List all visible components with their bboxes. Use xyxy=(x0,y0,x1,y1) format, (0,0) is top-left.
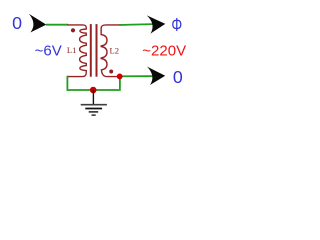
polarity dot (secondary) xyxy=(109,70,113,74)
svg-text:~220V: ~220V xyxy=(142,43,186,60)
svg-text:Φ: Φ xyxy=(171,15,182,35)
arrow (bottom-right output) xyxy=(147,67,165,85)
transformer core line (left) xyxy=(90,24,92,77)
junction (secondary bottom node) xyxy=(117,74,123,80)
wire (bottom rail) xyxy=(67,89,121,91)
ground xyxy=(81,90,107,115)
wire (left riser to primary bottom) xyxy=(66,76,68,90)
svg-text:0: 0 xyxy=(173,67,183,87)
svg-text:L1: L1 xyxy=(67,45,76,55)
svg-text:L2: L2 xyxy=(110,45,119,55)
transformer primary winding L1 xyxy=(67,25,86,77)
arrow (top-right output) xyxy=(147,15,166,34)
wire (top-left, arrow to primary pin) xyxy=(46,24,68,26)
arrow (top-left input) xyxy=(27,14,47,34)
polarity dot (primary) xyxy=(71,28,75,32)
wire (secondary top to arrow) xyxy=(119,23,153,26)
junction (ground node) xyxy=(90,87,97,94)
wire (junction down) xyxy=(119,76,121,89)
svg-text:~6V: ~6V xyxy=(35,43,62,60)
transformer core line (right) xyxy=(96,24,98,77)
transformer secondary winding L2 xyxy=(101,25,121,77)
svg-text:0: 0 xyxy=(12,13,22,33)
wire (junction to bottom-right arrow) xyxy=(121,75,153,77)
